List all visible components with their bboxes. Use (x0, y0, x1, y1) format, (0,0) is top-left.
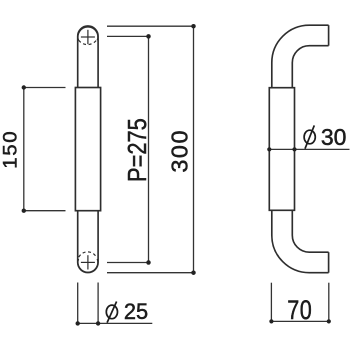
svg-text:30: 30 (321, 124, 347, 150)
svg-text:150: 150 (0, 130, 21, 169)
svg-text:P=275: P=275 (123, 118, 152, 182)
svg-text:300: 300 (166, 129, 192, 173)
svg-text:25: 25 (124, 299, 148, 324)
svg-text:70: 70 (287, 296, 312, 326)
